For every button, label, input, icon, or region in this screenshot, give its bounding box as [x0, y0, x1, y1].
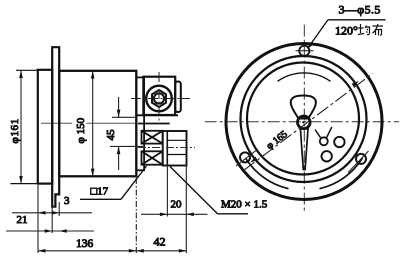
svg-text:φ 150: φ 150 [75, 117, 87, 143]
svg-text:□17: □17 [91, 186, 109, 198]
svg-text:φ 165: φ 165 [265, 129, 290, 152]
svg-text:φ161: φ161 [9, 118, 21, 143]
svg-text:21: 21 [17, 214, 28, 226]
svg-text:3: 3 [64, 195, 70, 207]
svg-text:42: 42 [154, 235, 166, 249]
svg-text:M20 × 1.5: M20 × 1.5 [221, 199, 268, 211]
svg-text:136: 136 [76, 238, 94, 250]
svg-text:20: 20 [171, 199, 183, 211]
svg-text:120°: 120° [335, 24, 358, 38]
svg-text:3—φ5.5: 3—φ5.5 [339, 3, 381, 17]
svg-text:45: 45 [105, 129, 117, 141]
